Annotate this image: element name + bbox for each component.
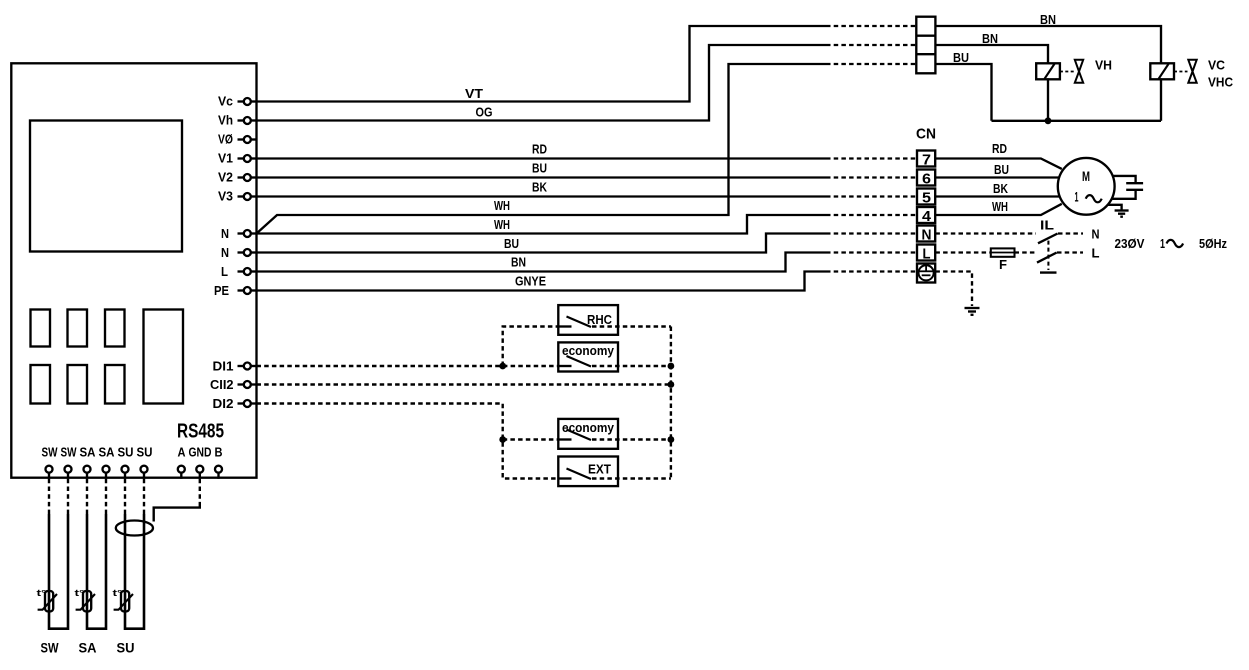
ground PE [965,307,980,309]
contact box EXT [558,457,618,487]
svg-text:Vc: Vc [218,94,233,109]
svg-text:SW: SW [61,445,78,460]
right bus vertical [670,327,672,479]
svg-text:BK: BK [532,180,547,195]
wire BN top (block row1 to VC branch) [935,26,1161,63]
svg-text:VØ: VØ [218,132,233,147]
svg-text:Vh: Vh [218,113,233,128]
wire GNYE (PE terminal to CN PE) [257,272,827,291]
wire BU to motor [935,176,1059,178]
svg-text:1: 1 [1160,236,1165,251]
svg-text:t°: t° [37,588,48,598]
svg-text:DI2: DI2 [213,396,234,411]
switch IL linkage [1047,241,1049,270]
svg-text:SA: SA [79,640,97,656]
svg-text:BN: BN [1040,12,1056,27]
svg-text:SA: SA [80,445,97,460]
CN terminal PE [917,264,935,283]
svg-text:BN: BN [511,255,526,270]
wire GND shield [199,479,201,504]
wire economy2 to right bus [592,438,671,440]
wire economy1 to right bus [592,365,671,367]
button 6 [105,365,125,404]
wire RHC branch vertical [503,327,559,367]
svg-text:V3: V3 [218,189,233,204]
svg-text:BU: BU [953,50,969,65]
sensor SU loop [125,514,144,629]
svg-text:N: N [221,245,229,260]
wire BK (V3 to CN 5) [257,195,827,197]
svg-text:GND: GND [189,445,212,460]
coil VH [1036,63,1060,79]
wire RHC to right bus [592,325,671,327]
svg-text:N: N [1092,227,1100,242]
svg-text:WH: WH [992,199,1008,214]
wire VT (Vc to top block row1) [257,26,827,102]
contact box RHC [558,305,618,335]
wire BU3 (block row3 to bottom bus) [935,64,991,121]
contact box economy 1 [558,342,618,371]
svg-text:SW: SW [42,445,59,460]
svg-text:IL: IL [1040,218,1054,233]
CN terminal 7 [917,151,935,167]
valve VC [1174,71,1188,73]
CN terminal N [917,226,935,242]
controller U1 outline [11,63,256,477]
wire sensor SW b [67,479,69,514]
svg-text:6: 6 [922,171,931,188]
svg-text:VH: VH [1095,58,1112,73]
svg-text:L: L [221,264,228,279]
wire sensor SW a [48,479,50,514]
svg-text:VHC: VHC [1208,75,1234,90]
svg-text:A: A [178,445,187,460]
svg-text:5: 5 [922,190,931,207]
button 5 [68,365,88,404]
CN terminal L [917,245,935,261]
wire CII2 row [257,383,671,385]
svg-text:F: F [999,257,1007,272]
svg-text:economy: economy [562,420,615,435]
svg-text:L: L [923,246,931,263]
wire RD to motor [935,159,1061,169]
wire EXT to right bus [592,477,671,479]
svg-text:BU: BU [504,236,519,251]
svg-text:WH: WH [494,198,510,213]
thermistor SW [45,591,53,611]
switch IL pole N [1038,234,1058,244]
svg-text:SU: SU [137,445,153,460]
svg-text:SW: SW [41,640,60,656]
button 1 [31,310,51,347]
wire N to switch IL [935,232,1036,234]
wire DI2 row [257,404,559,479]
motor M1 [1058,158,1115,215]
svg-text:t°: t° [75,588,86,598]
svg-text:economy: economy [562,343,615,358]
svg-text:VC: VC [1208,58,1226,73]
coil VC [1150,63,1174,79]
thermistor SU [121,591,129,611]
wire WH lower (N terminal to CN 4) [257,215,827,234]
svg-text:PE: PE [214,283,229,298]
CN terminal 6 [917,170,935,186]
svg-text:5ØHz: 5ØHz [1199,236,1227,251]
svg-text:SU: SU [117,640,135,656]
contact box economy 2 [558,419,618,449]
junction dot VH/bus [1045,117,1052,124]
svg-text:B: B [215,445,223,460]
wire L to fuse [935,251,990,253]
svg-text:RD: RD [532,142,547,157]
display window [30,121,182,252]
wire sensor SA b [105,479,107,514]
switch IL pole L [1037,253,1057,263]
cable shield oval [116,521,153,536]
svg-text:BU: BU [532,161,547,176]
svg-text:N: N [221,226,229,241]
wire BN2 (block row2 to VH coil) [935,45,1048,63]
svg-text:4: 4 [922,208,932,225]
wire economy2 branch [503,438,559,440]
svg-text:t°: t° [113,588,124,598]
svg-text:BN: BN [982,31,998,46]
run capacitor [1113,176,1136,183]
valve VH [1060,71,1074,73]
svg-text:SU: SU [118,445,134,460]
wire WH upper (N terminal diagonal to top block row3) [257,64,827,234]
wire BK to motor [935,195,1059,197]
wire RD (V1 to CN 7) [257,157,827,159]
fuse F [991,248,1015,256]
wire DI1 row [257,365,559,367]
junction dot DI1 left [499,363,506,370]
svg-text:7: 7 [922,152,931,169]
wire bottom bus [992,120,1162,122]
wire sensor SU a [124,479,126,514]
svg-text:23ØV: 23ØV [1115,236,1145,251]
top terminal block [916,17,935,74]
button large [144,310,184,404]
junction dot CII2 right [668,381,675,388]
svg-text:V1: V1 [218,151,233,166]
svg-text:RHC: RHC [587,312,613,327]
svg-text:RD: RD [992,141,1007,156]
motor ground [1108,205,1122,210]
wire WH to motor [935,204,1061,215]
svg-text:M: M [1082,168,1090,184]
button 2 [68,310,88,347]
sensor SA loop [87,514,106,629]
svg-text:BK: BK [993,181,1008,196]
svg-text:WH: WH [494,217,510,232]
svg-text:CII2: CII2 [210,377,234,392]
CN terminal 5 [917,189,935,205]
svg-text:RS485: RS485 [177,421,224,443]
button 4 [31,365,51,404]
sensor SW loop [49,514,68,629]
wire PE to ground [935,272,972,307]
svg-text:SA: SA [99,445,116,460]
junction dot DI2 vertical [499,436,506,443]
svg-text:OG: OG [476,105,493,120]
svg-text:EXT: EXT [588,462,611,477]
svg-text:V2: V2 [218,170,233,185]
wire sensor SA a [86,479,88,514]
wire BU (V2 to CN 6) [257,176,827,178]
svg-text:L: L [1092,246,1100,261]
svg-text:CN: CN [916,126,936,143]
svg-text:DI1: DI1 [213,359,234,374]
svg-text:N: N [922,227,932,244]
CN terminal 4 [917,207,935,223]
svg-text:1: 1 [1075,189,1079,205]
svg-text:GNYE: GNYE [515,274,546,289]
junction dot DI1 right [668,363,675,370]
button 3 [105,310,125,347]
wire BN (L terminal to CN L) [257,253,827,272]
thermistor SA [83,591,91,611]
wire sensor SU b [143,479,145,514]
motor sine mark [1086,195,1102,202]
svg-text:VT: VT [465,86,483,101]
junction dot economy2 right [668,436,675,443]
wire OG (Vh to top block row2) [257,45,827,121]
svg-text:BU: BU [994,162,1009,177]
wire BU2 (N2 terminal to CN N) [257,234,827,253]
